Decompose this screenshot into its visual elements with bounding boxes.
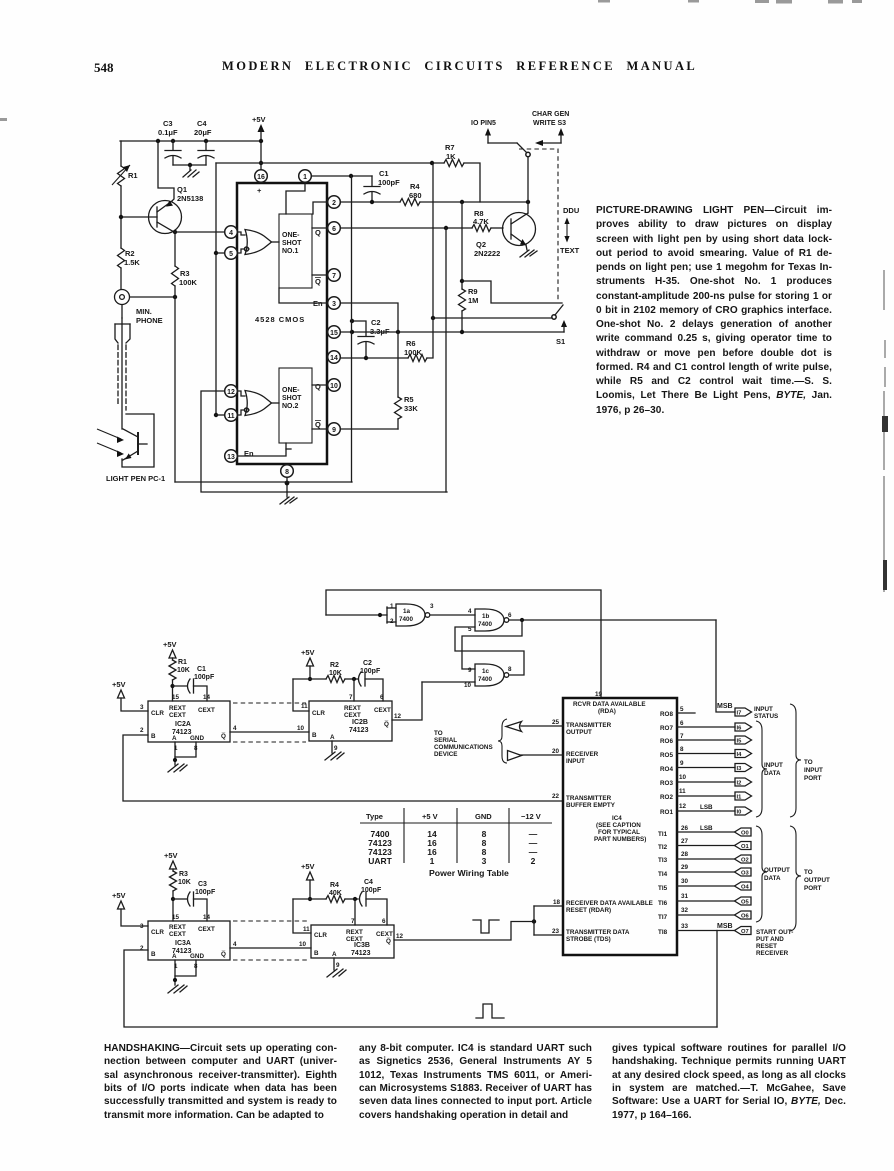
svg-text:I5: I5 [737, 739, 743, 745]
capacitor C1 100pF [364, 169, 400, 202]
svg-text:3: 3 [482, 856, 487, 866]
svg-text:10K: 10K [178, 879, 191, 886]
resistor R1 10K [169, 659, 190, 701]
svg-text:O4: O4 [741, 885, 750, 891]
svg-text:1b: 1b [482, 613, 490, 620]
svg-text:RCVR DATA AVAILABLE: RCVR DATA AVAILABLE [573, 701, 646, 708]
svg-text:MIN.: MIN. [136, 307, 152, 316]
svg-text:OUTPUT: OUTPUT [566, 729, 592, 736]
wire Q1 top lead to +5V rail [158, 141, 174, 201]
label TO OUTPUT PORT [804, 869, 830, 892]
svg-text:WRITE S3: WRITE S3 [533, 120, 566, 127]
svg-text:4.7K: 4.7K [473, 217, 489, 226]
svg-text:(SEE CAPTION: (SEE CAPTION [596, 822, 641, 829]
svg-text:+5V: +5V [112, 680, 126, 689]
node +5V for R3 [164, 851, 178, 871]
svg-text:7400: 7400 [399, 616, 414, 623]
svg-text:C2: C2 [371, 318, 381, 327]
svg-text:(RDA): (RDA) [598, 708, 616, 715]
svg-text:SHOT: SHOT [282, 240, 302, 247]
brace to serial device [498, 719, 507, 763]
svg-text:TI8: TI8 [658, 929, 668, 936]
svg-text:O6: O6 [741, 914, 750, 920]
pin 2 [328, 196, 341, 209]
svg-text:Type: Type [366, 812, 383, 821]
svg-text:ONE-: ONE- [282, 387, 300, 394]
svg-text:SERIAL: SERIAL [434, 737, 457, 744]
pin 11 [225, 409, 238, 422]
svg-text:4: 4 [233, 941, 237, 948]
jack MIN. PHONE [115, 290, 163, 326]
svg-text:UART: UART [368, 856, 392, 866]
svg-text:RECEIVER: RECEIVER [566, 751, 599, 758]
svg-text:NO.1: NO.1 [282, 248, 298, 255]
capacitor C2 100pF (bottom ckt) [354, 660, 383, 701]
svg-text:INPUT: INPUT [764, 762, 783, 769]
svg-text:+5V: +5V [301, 648, 315, 657]
NOR gate one-shot 2 input [238, 391, 279, 416]
svg-text:9: 9 [334, 745, 338, 752]
capacitor C4 [194, 119, 214, 165]
switch S1 blade [552, 305, 563, 319]
svg-text:TRANSMITTER: TRANSMITTER [566, 795, 612, 802]
svg-text:100K: 100K [404, 348, 423, 357]
ground Q2 emitter [520, 245, 537, 257]
svg-text:MSB: MSB [717, 703, 733, 710]
svg-text:IC2A: IC2A [175, 721, 191, 728]
svg-text:9: 9 [332, 427, 336, 434]
brace input data [756, 721, 767, 817]
svg-text:RO7: RO7 [660, 725, 673, 732]
svg-text:Q: Q [315, 382, 321, 391]
node +5V for IC2B [301, 648, 315, 681]
svg-text:DATA: DATA [764, 770, 781, 777]
svg-text:C1: C1 [197, 666, 206, 673]
svg-text:RESET (RDAR): RESET (RDAR) [566, 907, 611, 914]
svg-text:I7: I7 [737, 711, 742, 717]
svg-text:9: 9 [680, 760, 684, 767]
svg-text:R1: R1 [128, 171, 138, 180]
svg-text:RO5: RO5 [660, 752, 673, 759]
transistor Q1 2N5138 [121, 185, 203, 234]
svg-text:LSB: LSB [700, 804, 713, 811]
connector arrow TX [506, 722, 522, 732]
pin 10 [328, 379, 341, 392]
caption: handshaking col 3 [612, 1043, 846, 1123]
ground IC2A pins 1,8 [168, 742, 196, 772]
svg-text:31: 31 [681, 893, 689, 900]
label CHAR GEN WRITE S3 [532, 111, 569, 127]
output buffers O0-O7 [735, 828, 752, 935]
wire jack to R3 node [130, 295, 177, 299]
caption: handshaking col 2 [359, 1043, 592, 1123]
resistor R2 10K [293, 662, 358, 683]
label Q one-shot2 / wire to pin10 [312, 382, 327, 391]
wire pin12 to lower bus [201, 391, 447, 492]
resistor R3 10K [170, 871, 191, 921]
svg-text:100pF: 100pF [195, 889, 216, 896]
node +5V for IC2A CLR [112, 680, 148, 711]
svg-text:TI1: TI1 [658, 831, 668, 838]
svg-text:11: 11 [301, 703, 308, 710]
svg-text:TI5: TI5 [658, 885, 668, 892]
svg-text:TI6: TI6 [658, 900, 668, 907]
one-shot No.2 box [279, 368, 312, 443]
svg-text:7: 7 [351, 918, 355, 925]
svg-text:O2: O2 [741, 858, 749, 864]
ground C3/C4 [183, 170, 199, 177]
svg-text:R2: R2 [125, 249, 135, 258]
svg-text:GND: GND [190, 953, 204, 960]
wire TI8 riser to bottom bus [716, 931, 718, 1028]
svg-text:COMMUNICATIONS: COMMUNICATIONS [434, 744, 493, 751]
wire pen cable (dashed) [118, 345, 126, 410]
svg-text:1: 1 [430, 856, 435, 866]
svg-text:RO3: RO3 [660, 780, 673, 787]
label En one-shot1 / wire from pin3 [279, 288, 327, 308]
resistor R5 33K [395, 332, 419, 429]
one-shot No.1 box [279, 214, 312, 288]
svg-text:100pF: 100pF [378, 178, 400, 187]
wire pin20 receiver input [521, 754, 563, 756]
label DDU / TEXT with arrow [560, 206, 580, 255]
pin 3 [328, 297, 341, 310]
wire pin6 row y228 + resistor R8 4.7K [341, 209, 503, 232]
svg-text:+5V: +5V [163, 640, 177, 649]
wire 1b out to 1c in9 [462, 620, 522, 669]
wire IC2A pin2 to pin22 bus [123, 735, 563, 801]
label OUTPUT DATA [764, 867, 790, 882]
NAND gate 1b 7400 [468, 608, 512, 633]
label LIGHT PEN PC-1 [106, 474, 165, 483]
svg-text:CEXT: CEXT [374, 707, 391, 714]
svg-text:O1: O1 [741, 844, 750, 850]
svg-text:26: 26 [681, 825, 689, 832]
svg-text:CEXT: CEXT [169, 712, 186, 719]
svg-text:9: 9 [468, 667, 472, 674]
svg-text:+5V: +5V [164, 851, 178, 860]
ground IC3A pins 1,8 [168, 960, 196, 993]
svg-text:RECEIVER DATA AVAILABLE: RECEIVER DATA AVAILABLE [566, 900, 653, 907]
svg-text:74123: 74123 [349, 727, 369, 734]
switch S1 pole arrow [556, 320, 567, 346]
svg-text:4: 4 [229, 230, 233, 237]
svg-text:27: 27 [681, 838, 689, 845]
svg-text:GND: GND [475, 812, 492, 821]
resistor R1 (variable) [112, 141, 138, 217]
svg-text:15: 15 [172, 694, 180, 701]
resistor R2 1.5K [118, 215, 141, 289]
resistor R4 40K [293, 882, 358, 903]
svg-text:4: 4 [468, 608, 472, 615]
pin 12 [225, 385, 238, 398]
svg-text:18: 18 [553, 899, 561, 906]
svg-text:10: 10 [464, 682, 472, 689]
svg-text:REXT: REXT [346, 929, 363, 936]
svg-text:A: A [172, 953, 177, 960]
IC2A 74123 [140, 694, 237, 752]
svg-text:IC3A: IC3A [175, 940, 191, 947]
svg-text:RESET: RESET [756, 943, 777, 950]
svg-text:32: 32 [681, 907, 689, 914]
svg-text:CLR: CLR [314, 932, 327, 939]
svg-text:IO PIN5: IO PIN5 [471, 120, 496, 127]
svg-text:C1: C1 [379, 169, 389, 178]
resistor R3 100K [172, 230, 198, 297]
resistor R9 1M [459, 202, 479, 332]
wire pin8 ground stem [285, 478, 290, 497]
svg-text:33K: 33K [404, 404, 418, 413]
pin 1 [299, 170, 312, 183]
wire pin6 column x446 to lower bus [445, 228, 447, 492]
svg-text:6: 6 [332, 226, 336, 233]
svg-text:3: 3 [140, 704, 144, 711]
svg-text:R4: R4 [410, 182, 420, 191]
pin 9 [328, 423, 341, 436]
svg-text:100pF: 100pF [194, 674, 215, 681]
svg-text:TO: TO [434, 730, 443, 737]
svg-text:+: + [257, 186, 262, 195]
svg-text:RO4: RO4 [660, 766, 673, 773]
svg-text:OUTPUT: OUTPUT [804, 877, 830, 884]
svg-text:33: 33 [681, 923, 689, 930]
svg-text:3: 3 [140, 923, 144, 930]
svg-text:DDU: DDU [563, 206, 579, 215]
svg-text:R9: R9 [468, 287, 478, 296]
svg-text:CLR: CLR [151, 929, 164, 936]
svg-text:5: 5 [680, 706, 684, 713]
svg-text:O0: O0 [741, 831, 749, 837]
svg-text:B: B [151, 733, 156, 740]
svg-text:INPUT: INPUT [754, 706, 773, 713]
svg-text:100pF: 100pF [360, 668, 381, 675]
svg-text:R3: R3 [179, 871, 188, 878]
svg-text:C2: C2 [363, 660, 372, 667]
wire IC2A Q to IC2B B (pin4-pin10) [230, 725, 309, 732]
wire +5V rail to R7 (y163) [216, 161, 444, 165]
svg-text:B: B [312, 732, 317, 739]
svg-text:TI4: TI4 [658, 871, 668, 878]
wire 1a out to 1b in [430, 614, 475, 616]
svg-text:15: 15 [330, 330, 338, 337]
svg-text:A: A [332, 951, 337, 958]
svg-text:14: 14 [330, 355, 338, 362]
IC2B 74123 [301, 694, 402, 752]
phone plug [115, 305, 130, 429]
svg-text:S1: S1 [556, 337, 565, 346]
label START OUTPUT AND RESET RECEIVER [756, 929, 793, 957]
svg-text:R2: R2 [330, 662, 339, 669]
wire pin9 row [341, 428, 398, 430]
svg-text:PART NUMBERS): PART NUMBERS) [594, 836, 646, 843]
svg-text:12: 12 [396, 933, 404, 940]
pin 5 [225, 247, 238, 260]
wire pin2 internal [313, 202, 327, 214]
svg-text:4528 CMOS: 4528 CMOS [255, 315, 305, 324]
svg-text:I4: I4 [737, 752, 743, 758]
svg-text:O5: O5 [741, 900, 750, 906]
svg-text:CLR: CLR [312, 710, 325, 717]
pin 4 [225, 226, 238, 239]
svg-text:RO8: RO8 [660, 711, 673, 718]
scan artifacts top edge [0, 0, 862, 121]
svg-text:+5V: +5V [252, 115, 266, 124]
svg-text:29: 29 [681, 864, 689, 871]
wire pin15 row y332 to S1 [341, 330, 564, 334]
svg-text:8: 8 [285, 469, 289, 476]
waveform negative pulse [473, 920, 499, 933]
brace output data [756, 826, 767, 922]
capacitor C4 100pF (bottom ckt) [355, 879, 387, 925]
svg-text:2: 2 [332, 200, 336, 207]
IC4 left pin numbers [552, 719, 561, 935]
svg-text:11: 11 [679, 788, 686, 795]
svg-text:CHAR GEN: CHAR GEN [532, 111, 569, 118]
svg-text:30: 30 [681, 878, 689, 885]
svg-text:PORT: PORT [804, 775, 822, 782]
svg-text:14: 14 [203, 914, 211, 921]
svg-text:7: 7 [680, 733, 684, 740]
light pen body PC-1 [122, 414, 154, 467]
brace to input port [790, 704, 801, 817]
wire pin2 row y202 + resistor R4 680 [341, 182, 530, 206]
svg-text:14: 14 [203, 694, 211, 701]
svg-text:FOR TYPICAL: FOR TYPICAL [598, 829, 640, 836]
svg-text:RO6: RO6 [660, 738, 673, 745]
svg-text:100K: 100K [179, 278, 198, 287]
svg-text:REXT: REXT [169, 924, 186, 931]
wire IC3A pin2 to bottom bus [124, 950, 717, 1027]
svg-text:3.3μF: 3.3μF [370, 327, 390, 336]
wire pin1 internal [286, 183, 305, 214]
svg-text:2N5138: 2N5138 [177, 194, 203, 203]
svg-text:TEXT: TEXT [560, 246, 580, 255]
svg-text:25: 25 [552, 719, 560, 726]
svg-text:C3: C3 [163, 119, 173, 128]
svg-text:23: 23 [552, 928, 560, 935]
svg-text:LIGHT PEN PC-1: LIGHT PEN PC-1 [106, 474, 165, 483]
svg-text:20μF: 20μF [194, 128, 212, 137]
svg-text:I3: I3 [737, 766, 743, 772]
transistor Q2 2N2222 [474, 213, 536, 259]
svg-text:1: 1 [303, 174, 307, 181]
wire Cext column x352 [351, 176, 353, 482]
svg-text:R5: R5 [404, 395, 414, 404]
svg-text:2N2222: 2N2222 [474, 249, 500, 258]
svg-text:74123: 74123 [351, 950, 371, 957]
svg-text:O7: O7 [741, 929, 749, 935]
svg-text:13: 13 [227, 454, 235, 461]
light arrows into pen [97, 429, 124, 457]
svg-text:CEXT: CEXT [198, 707, 215, 714]
wire pin3 row to R5 [341, 303, 398, 332]
wire pin25 transmitter output [521, 725, 563, 727]
svg-text:1a: 1a [403, 608, 411, 615]
svg-text:TI3: TI3 [658, 857, 668, 864]
wire 1c in10 from IC2B Q [392, 682, 475, 720]
svg-text:DATA: DATA [764, 875, 781, 882]
IC4 right: TI pin rows [658, 825, 735, 838]
svg-text:7400: 7400 [478, 676, 493, 683]
wire bottom bus y482 [175, 481, 352, 483]
svg-text:TI7: TI7 [658, 914, 668, 921]
svg-text:PUT AND: PUT AND [756, 936, 784, 943]
svg-text:2: 2 [140, 945, 144, 952]
svg-text:TI2: TI2 [658, 844, 668, 851]
svg-text:IC4: IC4 [612, 815, 622, 822]
svg-text:RECEIVER: RECEIVER [756, 950, 789, 957]
node +5V for IC3B [301, 862, 315, 901]
svg-text:10: 10 [299, 941, 307, 948]
svg-text:Q̅: Q̅ [386, 937, 391, 945]
wire IC3B CLR from +5V [293, 899, 311, 933]
svg-text:C4: C4 [364, 879, 373, 886]
label INPUT DATA [764, 762, 783, 777]
svg-text:C3: C3 [198, 881, 207, 888]
pin 8 [281, 465, 294, 478]
pin 16 [255, 170, 268, 183]
node +5V supply [252, 115, 266, 171]
svg-text:PORT: PORT [804, 885, 822, 892]
label Qbar one-shot2 / wire to pin9 [312, 420, 327, 429]
svg-text:Q1: Q1 [177, 185, 187, 194]
svg-text:8: 8 [680, 746, 684, 753]
wire pin14 row + resistor R6 100K [341, 163, 433, 362]
capacitor C1 100pF (bottom ckt) [173, 666, 215, 701]
scan artifacts right margin [884, 270, 885, 592]
svg-text:SHOT: SHOT [282, 395, 302, 402]
wire R9 top to S1 upper throw [462, 281, 562, 303]
svg-text:10: 10 [297, 725, 305, 732]
svg-text:0.1μF: 0.1μF [158, 128, 178, 137]
caption: handshaking col 1 [104, 1043, 337, 1123]
pin 7 [328, 269, 341, 282]
wire 1b output long line to MSB buffer [509, 618, 735, 712]
svg-text:CEXT: CEXT [344, 712, 361, 719]
label IO PIN5 [471, 120, 496, 127]
input buffers I7-I0 [735, 708, 752, 815]
pin 15 [328, 326, 341, 339]
svg-text:1M: 1M [468, 296, 478, 305]
IC4 right: RO pin rows [660, 706, 695, 718]
svg-text:MSB: MSB [717, 923, 733, 930]
svg-text:3: 3 [332, 301, 336, 308]
wire Q2 collector to node [527, 202, 529, 213]
svg-text:5: 5 [229, 251, 233, 258]
wire B-inputs column x216 [214, 163, 224, 417]
wire 1c out to 1b in5 [455, 627, 524, 675]
svg-text:R1: R1 [178, 659, 187, 666]
svg-text:TO: TO [804, 759, 813, 766]
svg-text:8: 8 [508, 666, 512, 673]
svg-text:TRANSMITTER DATA: TRANSMITTER DATA [566, 929, 630, 936]
svg-text:11: 11 [303, 926, 310, 933]
svg-text:+5V: +5V [112, 891, 126, 900]
capacitor C3 [158, 119, 181, 165]
svg-text:BUFFER EMPTY: BUFFER EMPTY [566, 802, 616, 809]
svg-text:I6: I6 [737, 726, 743, 732]
svg-text:OUTPUT: OUTPUT [764, 867, 790, 874]
svg-text:C4: C4 [197, 119, 207, 128]
svg-text:1c: 1c [482, 668, 490, 675]
svg-text:IC3B: IC3B [354, 942, 370, 949]
svg-text:3: 3 [430, 603, 434, 610]
waveform positive pulse [476, 1004, 504, 1018]
label TO SERIAL COMMUNICATIONS DEVICE [434, 730, 493, 758]
svg-text:Power Wiring Table: Power Wiring Table [429, 868, 509, 878]
svg-text:12: 12 [679, 803, 687, 810]
svg-text:+5 V: +5 V [422, 812, 438, 821]
